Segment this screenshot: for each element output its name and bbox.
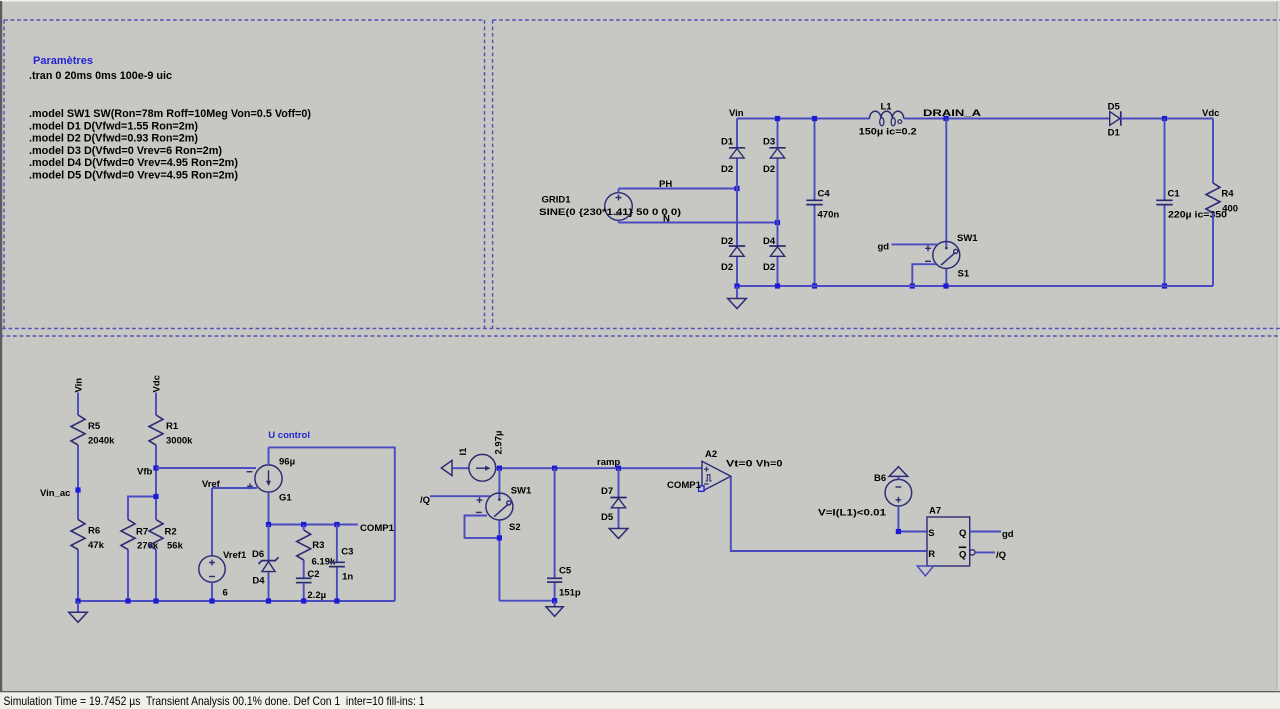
svg-text:Vdc: Vdc [152, 375, 163, 392]
svg-text:A2: A2 [705, 449, 717, 460]
svg-text:/Q: /Q [420, 495, 430, 506]
wire R7 branch [128, 494, 159, 601]
svg-text:R1: R1 [166, 421, 179, 432]
svg-text:gd: gd [878, 242, 890, 253]
capacitor C1 [1156, 119, 1227, 289]
svg-text:D5: D5 [1108, 102, 1121, 113]
wire S2 bottom [499, 600, 554, 602]
directive D1 [29, 120, 198, 132]
svg-text:R: R [928, 549, 935, 560]
svg-text:2.97µ: 2.97µ [494, 431, 505, 455]
resistor R3 [297, 525, 336, 579]
svg-text:400: 400 [1222, 204, 1238, 215]
label U control [268, 430, 310, 441]
svg-text:Vref1: Vref1 [223, 550, 247, 561]
capacitor C2 [296, 569, 326, 601]
label GRID1 [542, 195, 572, 206]
svg-text:Vdc: Vdc [1202, 108, 1219, 119]
wire COMP1 [266, 522, 358, 527]
status bar [0, 692, 1280, 709]
node ramp [597, 457, 621, 471]
value SINE(0 {230*1.41} 50 0 0 0) [539, 207, 681, 218]
svg-text:Vfb: Vfb [137, 467, 153, 478]
node Vdc label rotated [152, 375, 163, 392]
node Vfb [137, 465, 159, 477]
svg-text:.model SW1 SW(Ron=78m Roff=10M: .model SW1 SW(Ron=78m Roff=10Meg Von=0.5… [29, 108, 311, 120]
wire /Q to S2 [430, 496, 491, 503]
svg-text:.model D4 D(Vfwd=0 Vrev=4.95 R: .model D4 D(Vfwd=0 Vrev=4.95 Ron=2m) [29, 157, 238, 169]
svg-text:151p: 151p [559, 588, 581, 599]
svg-text:D2: D2 [763, 262, 775, 273]
directive D2 [29, 133, 198, 145]
svg-text:Paramètres: Paramètres [33, 55, 93, 67]
svg-text:Vin: Vin [74, 378, 85, 393]
svg-text:V=I(L1)<0.01: V=I(L1)<0.01 [818, 508, 887, 519]
svg-text:3000k: 3000k [166, 436, 193, 447]
svg-text:D1: D1 [1108, 128, 1121, 139]
resistor R6 [71, 520, 105, 552]
directive D4 [29, 157, 238, 169]
svg-text:COMP1: COMP1 [667, 480, 702, 491]
wire ramp rail [496, 466, 702, 471]
svg-text:S2: S2 [509, 522, 521, 533]
wire A2 output [731, 476, 927, 551]
svg-text:.model D5 D(Vfwd=0 Vrev=4.95 R: .model D5 D(Vfwd=0 Vrev=4.95 Ron=2m) [29, 169, 238, 181]
wire Qbar output [970, 550, 995, 555]
diode D3 [763, 137, 786, 176]
svg-text:2040k: 2040k [88, 436, 115, 447]
svg-text:A7: A7 [929, 506, 941, 517]
wire bottom rail power [734, 283, 1213, 288]
capacitor C5 [547, 468, 581, 601]
svg-text:D1: D1 [721, 137, 734, 148]
wire Q output [970, 531, 1001, 533]
node Vdc label [1202, 108, 1219, 119]
label gd [878, 242, 890, 253]
label /Q left [420, 495, 430, 506]
flip-flop A7 [917, 506, 970, 576]
window top highlight [0, 0, 1280, 2]
svg-text:N: N [663, 214, 670, 225]
wire U control box [269, 447, 395, 601]
ground power [728, 286, 747, 309]
svg-text:D4: D4 [763, 236, 776, 247]
svg-text:U control: U control [268, 430, 310, 441]
node N [663, 214, 780, 226]
inductor L1 [859, 102, 917, 138]
svg-text:R6: R6 [88, 526, 100, 537]
svg-text:R2: R2 [165, 527, 177, 538]
value Vt=0 Vh=0 [726, 459, 783, 470]
dashed border bottom region [0, 335, 1280, 337]
svg-text:R7: R7 [136, 527, 148, 538]
svg-text:Vh=0: Vh=0 [756, 459, 783, 470]
resistor R7 [121, 520, 159, 552]
diode D4 lower-right [763, 236, 786, 273]
svg-text:Q: Q [959, 528, 966, 539]
resistor R4 [1206, 119, 1238, 287]
svg-text:/Q: /Q [996, 550, 1006, 561]
wire Vin rail [77, 393, 79, 602]
svg-text:GRID1: GRID1 [542, 195, 572, 206]
svg-text:C3: C3 [341, 546, 353, 557]
wire B6 to S input [896, 529, 927, 534]
svg-text:R4: R4 [1221, 188, 1234, 199]
svg-text:S1: S1 [958, 269, 970, 280]
svg-text:D2: D2 [721, 164, 733, 175]
directive .tran [29, 70, 172, 82]
svg-text:C2: C2 [307, 569, 319, 580]
op-amp G1 [247, 447, 295, 524]
switch SW1 S2 [486, 468, 532, 601]
wire SW1 minus control [910, 261, 936, 288]
wire Vref [212, 488, 257, 556]
source B6 [874, 467, 912, 532]
svg-text:Simulation Time = 19.7452 µs: Simulation Time = 19.7452 µs Transient A… [4, 694, 425, 708]
svg-text:PH: PH [659, 179, 672, 190]
svg-text:.model D3 D(Vfwd=0 Vrev=6 Ron=: .model D3 D(Vfwd=0 Vrev=6 Ron=2m) [29, 145, 222, 157]
node DRAIN_A [923, 108, 981, 121]
svg-text:C4: C4 [818, 189, 831, 200]
ground flag I1 left [441, 460, 469, 475]
svg-text:S: S [928, 528, 934, 539]
wire top rail right [904, 118, 1110, 120]
wire D5 to Vdc [1121, 116, 1213, 121]
node Vref label [202, 479, 221, 490]
svg-text:.tran 0 20ms 0ms 100e-9 uic: .tran 0 20ms 0ms 100e-9 uic [29, 70, 172, 82]
svg-text:SW1: SW1 [511, 486, 532, 497]
node COMP1 label [360, 523, 395, 534]
wire S2 minus loop [465, 512, 503, 540]
svg-text:150µ ic=0.2: 150µ ic=0.2 [859, 127, 917, 138]
capacitor C4 [806, 116, 839, 289]
svg-text:1n: 1n [342, 572, 353, 583]
svg-text:.model D1 D(Vfwd=1.55 Ron=2m): .model D1 D(Vfwd=1.55 Ron=2m) [29, 120, 198, 132]
svg-text:Q: Q [959, 550, 966, 561]
svg-text:D2: D2 [721, 236, 733, 247]
svg-text:G1: G1 [279, 493, 292, 504]
svg-text:2.2µ: 2.2µ [307, 590, 326, 601]
value 2.97u rotated [494, 431, 505, 455]
svg-text:D4: D4 [252, 576, 265, 587]
comparator A2 [702, 449, 731, 491]
svg-text:COMP1: COMP1 [360, 523, 395, 534]
wire bridge column2 [775, 116, 780, 286]
svg-text:47k: 47k [88, 540, 105, 551]
directive D3 [29, 145, 222, 157]
wire bottom rail control [75, 598, 394, 603]
svg-text:Vt=0: Vt=0 [726, 459, 753, 470]
node gd label [1002, 529, 1014, 540]
resistor R1 [149, 415, 193, 447]
svg-text:Vref: Vref [202, 479, 221, 490]
title Parametres [33, 55, 93, 67]
svg-text:220µ ic=350: 220µ ic=350 [1168, 210, 1227, 221]
window left border [0, 1, 2, 691]
wire gd to SW1 [892, 244, 938, 251]
directive D5 [29, 169, 238, 181]
ground control [69, 601, 88, 622]
svg-text:B6: B6 [874, 473, 886, 484]
wire PH [619, 188, 738, 190]
value V=I(L1)<0.01 [818, 508, 887, 519]
diode D2 lower-left [721, 236, 745, 273]
node COMP1 at A2 [667, 480, 704, 491]
diode D7 [601, 468, 627, 528]
wire Vdc rail [155, 393, 157, 602]
svg-text:Vin: Vin [729, 108, 744, 119]
node Vin_ac [40, 487, 81, 499]
wire Vfb to G1 [156, 467, 256, 469]
label I1 rotated [458, 447, 469, 456]
svg-text:R5: R5 [88, 421, 101, 432]
svg-text:gd: gd [1002, 529, 1014, 540]
svg-text:D2: D2 [763, 164, 775, 175]
svg-text:R3: R3 [312, 540, 324, 551]
svg-text:D7: D7 [601, 486, 613, 497]
status bar text [4, 694, 425, 708]
svg-text:6: 6 [223, 588, 228, 599]
wire bridge column1 [736, 119, 738, 287]
voltage source Vref1 [199, 550, 247, 601]
voltage source GRID1 [605, 189, 633, 223]
zener diode D6 [252, 525, 279, 602]
diode D1 [721, 137, 745, 176]
switch SW1 power [933, 119, 979, 287]
dashed border top-right region [493, 20, 1280, 329]
svg-text:.model D2 D(Vfwd=0.93 Ron=2m): .model D2 D(Vfwd=0.93 Ron=2m) [29, 133, 198, 145]
node Vin label [729, 108, 744, 119]
svg-text:56k: 56k [167, 541, 184, 552]
svg-text:C5: C5 [559, 566, 572, 577]
svg-text:D5: D5 [601, 512, 614, 523]
wire N [619, 222, 778, 224]
svg-text:C1: C1 [1168, 189, 1181, 200]
ground D7 [609, 529, 628, 539]
svg-text:Vin_ac: Vin_ac [40, 488, 70, 499]
svg-text:DRAIN_A: DRAIN_A [923, 108, 981, 119]
current source I1 [469, 454, 496, 481]
resistor R5 [71, 415, 115, 447]
node PH [659, 179, 740, 191]
svg-text:SINE(0 {230*1.41} 50 0 0 0): SINE(0 {230*1.41} 50 0 0 0) [539, 207, 681, 218]
svg-text:L1: L1 [881, 102, 893, 113]
svg-text:96µ: 96µ [279, 456, 295, 467]
ground C5 [546, 598, 563, 616]
svg-text:D3: D3 [763, 137, 775, 148]
window right border [1277, 1, 1280, 691]
capacitor C3 [329, 525, 354, 602]
svg-text:SW1: SW1 [957, 233, 978, 244]
svg-text:D2: D2 [721, 262, 733, 273]
svg-text:I1: I1 [458, 447, 469, 456]
svg-text:470n: 470n [818, 209, 840, 220]
node Vin label rotated [74, 378, 85, 393]
svg-text:D6: D6 [252, 549, 264, 560]
directive SW1 [29, 108, 311, 120]
diode D5 [1108, 102, 1121, 139]
resistor R2 [149, 520, 184, 552]
dashed border top-left region [4, 20, 485, 329]
node /Q label right [996, 550, 1006, 561]
dashed divider line [2, 328, 1280, 330]
wire top rail left [737, 118, 870, 120]
